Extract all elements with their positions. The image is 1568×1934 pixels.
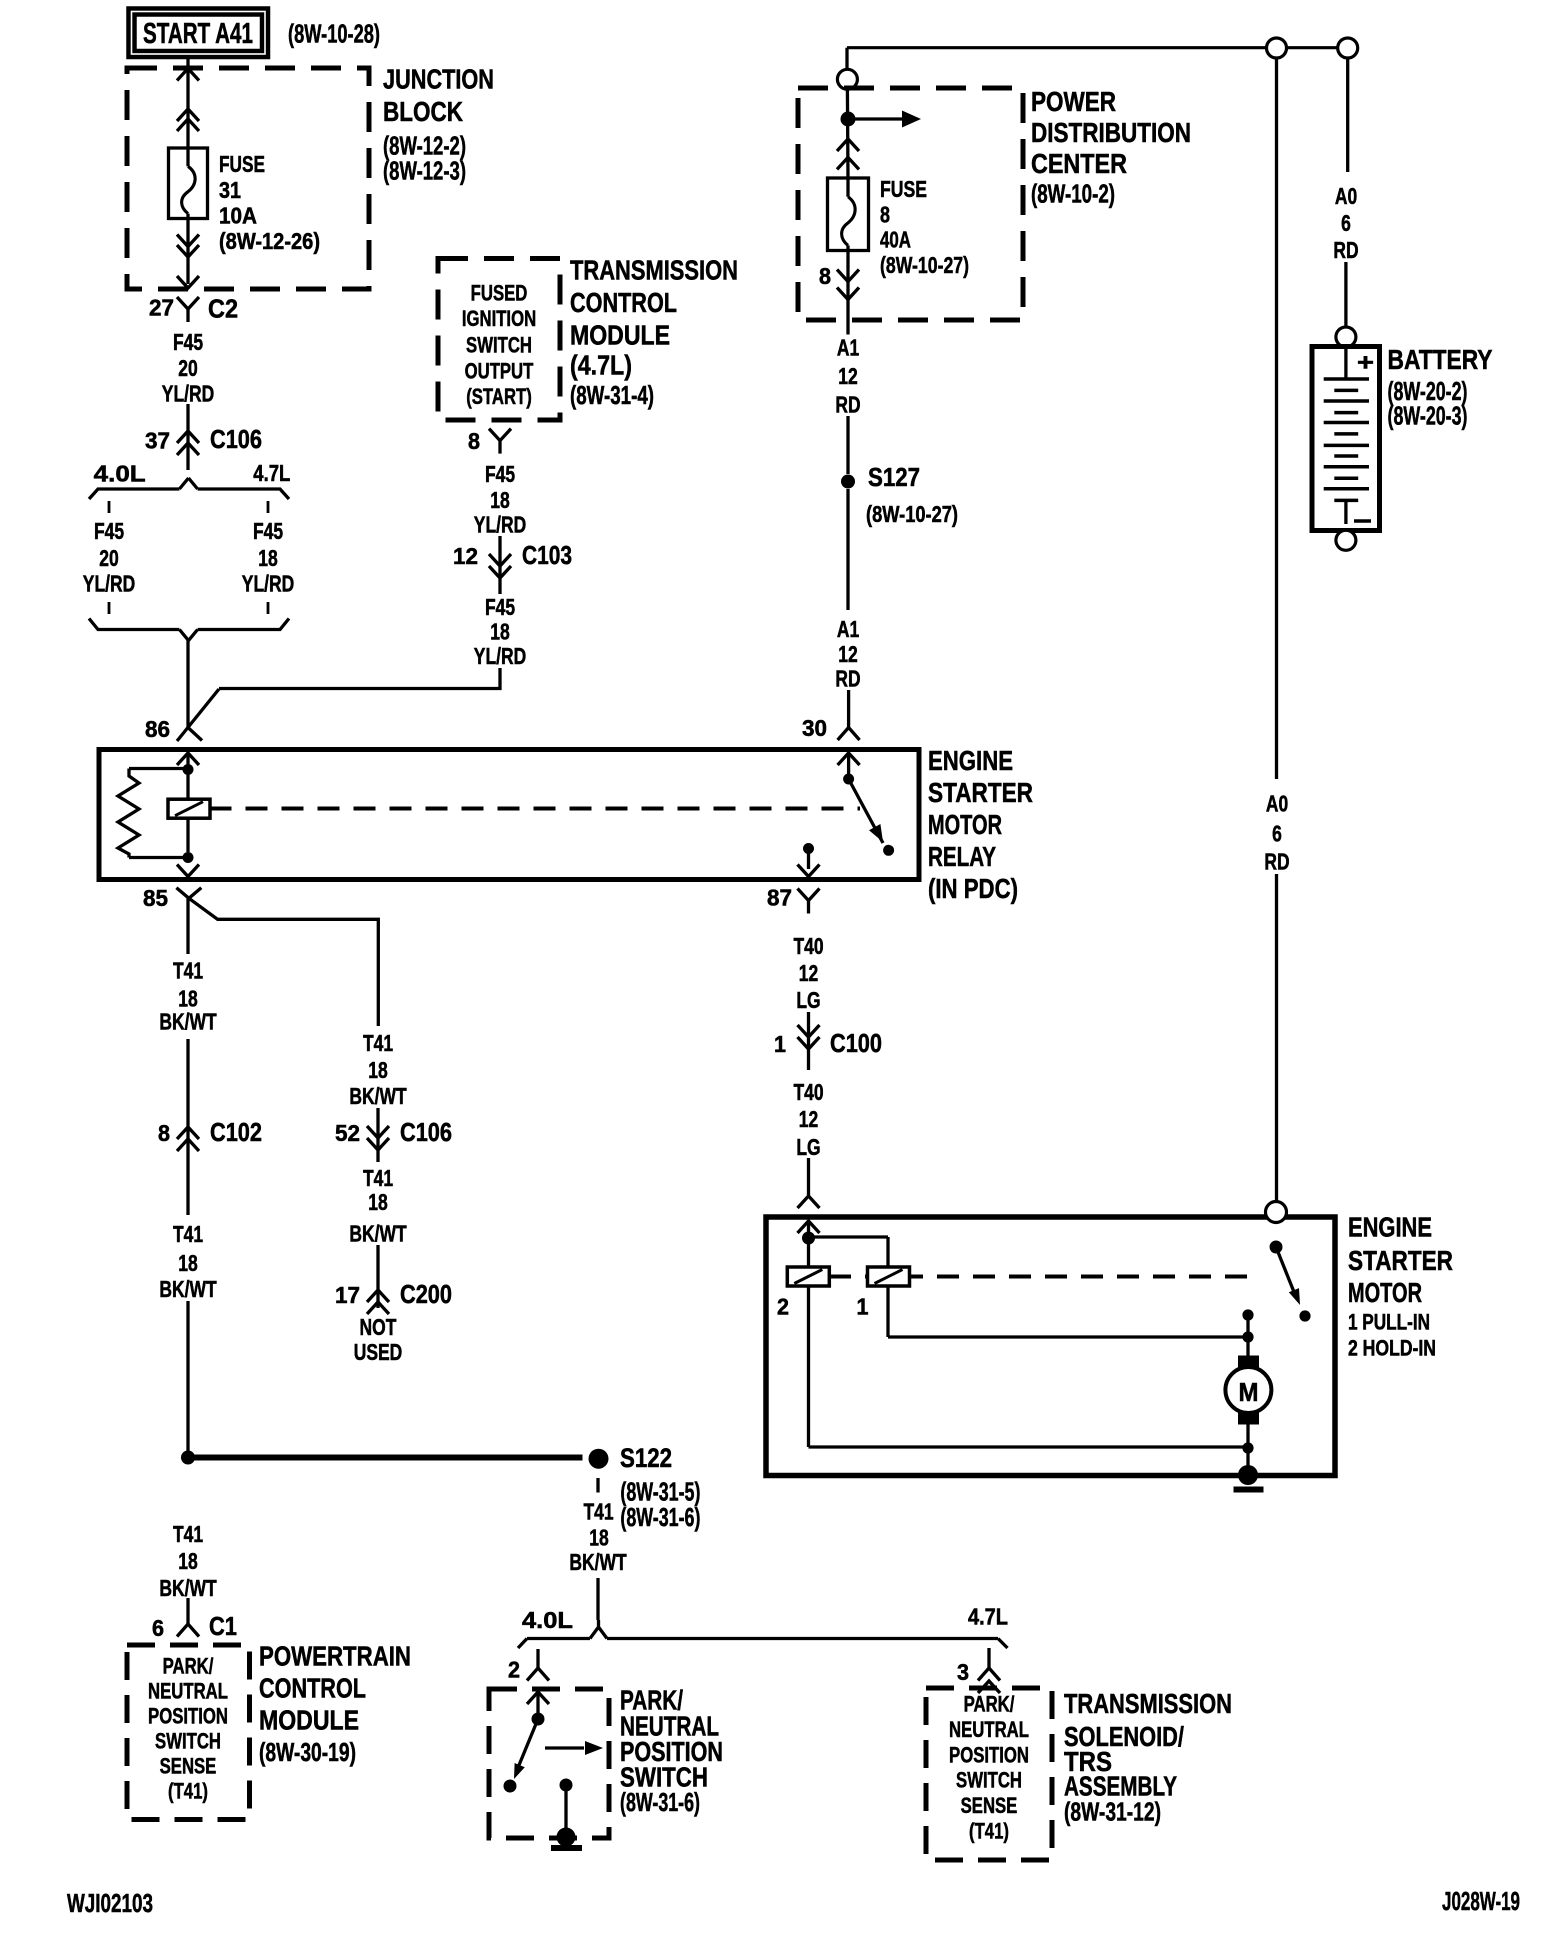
svg-text:J028W-19: J028W-19 <box>1442 1886 1520 1916</box>
svg-text:6: 6 <box>152 1615 164 1641</box>
svg-text:DISTRIBUTION: DISTRIBUTION <box>1031 117 1191 148</box>
svg-text:MODULE: MODULE <box>259 1705 359 1736</box>
svg-text:86: 86 <box>145 716 170 742</box>
svg-text:8: 8 <box>468 428 480 454</box>
svg-text:BK/WT: BK/WT <box>159 1276 216 1302</box>
svg-text:(IN PDC): (IN PDC) <box>928 873 1018 904</box>
svg-text:BK/WT: BK/WT <box>159 1575 216 1601</box>
svg-text:6: 6 <box>1341 210 1351 236</box>
svg-text:CONTROL: CONTROL <box>570 287 677 318</box>
svg-text:MODULE: MODULE <box>570 320 670 351</box>
svg-text:BK/WT: BK/WT <box>159 1009 216 1035</box>
svg-text:ENGINE: ENGINE <box>928 745 1013 776</box>
svg-text:(8W-10-27): (8W-10-27) <box>880 252 969 278</box>
svg-text:18: 18 <box>258 545 278 571</box>
svg-text:SWITCH: SWITCH <box>466 332 532 357</box>
svg-text:12: 12 <box>838 641 858 667</box>
svg-text:2: 2 <box>777 1294 789 1320</box>
svg-text:17: 17 <box>335 1282 360 1308</box>
svg-text:2: 2 <box>508 1657 520 1683</box>
svg-text:POWERTRAIN: POWERTRAIN <box>259 1641 411 1672</box>
svg-text:FUSED: FUSED <box>471 281 528 306</box>
svg-text:(START): (START) <box>466 384 532 409</box>
svg-text:12: 12 <box>453 543 478 569</box>
svg-text:8: 8 <box>819 263 831 289</box>
svg-text:TRANSMISSION: TRANSMISSION <box>1064 1688 1232 1719</box>
svg-text:4.0L: 4.0L <box>94 461 146 487</box>
svg-text:(8W-10-27): (8W-10-27) <box>866 501 958 527</box>
svg-text:SENSE: SENSE <box>160 1754 217 1779</box>
svg-text:8: 8 <box>158 1120 170 1146</box>
svg-text:6: 6 <box>1272 821 1282 847</box>
svg-text:F45: F45 <box>485 594 515 620</box>
svg-text:MOTOR: MOTOR <box>928 809 1002 840</box>
svg-text:40A: 40A <box>880 226 911 252</box>
svg-text:NOT: NOT <box>360 1314 397 1340</box>
svg-text:A1: A1 <box>837 335 859 361</box>
svg-text:2 HOLD-IN: 2 HOLD-IN <box>1348 1336 1436 1361</box>
svg-text:31: 31 <box>219 177 241 203</box>
svg-text:4.7L: 4.7L <box>968 1604 1008 1630</box>
svg-text:20: 20 <box>99 545 119 571</box>
svg-text:YL/RD: YL/RD <box>474 643 526 669</box>
svg-text:LG: LG <box>796 1134 820 1160</box>
svg-text:(8W-10-2): (8W-10-2) <box>1031 179 1115 209</box>
svg-text:87: 87 <box>767 885 792 911</box>
svg-text:T41: T41 <box>363 1030 393 1056</box>
svg-text:A0: A0 <box>1335 183 1357 209</box>
svg-text:8: 8 <box>880 202 890 228</box>
svg-text:BK/WT: BK/WT <box>569 1549 626 1575</box>
svg-text:IGNITION: IGNITION <box>462 306 536 331</box>
svg-text:A1: A1 <box>837 616 859 642</box>
svg-text:(8W-10-28): (8W-10-28) <box>288 19 380 49</box>
svg-text:JUNCTION: JUNCTION <box>383 64 494 95</box>
svg-text:T41: T41 <box>173 1221 203 1247</box>
svg-text:S127: S127 <box>868 462 920 492</box>
svg-text:RD: RD <box>1333 237 1358 263</box>
svg-text:PARK/: PARK/ <box>964 1692 1015 1717</box>
svg-text:POSITION: POSITION <box>148 1704 228 1729</box>
svg-text:(8W-31-12): (8W-31-12) <box>1064 1797 1161 1827</box>
svg-text:WJI02103: WJI02103 <box>67 1888 153 1918</box>
svg-text:SWITCH: SWITCH <box>956 1768 1022 1793</box>
svg-text:85: 85 <box>143 885 168 911</box>
svg-text:27: 27 <box>149 295 174 321</box>
svg-text:C2: C2 <box>208 294 238 324</box>
svg-text:C200: C200 <box>400 1279 452 1309</box>
svg-text:A0: A0 <box>1266 791 1288 817</box>
svg-text:T41: T41 <box>173 958 203 984</box>
svg-text:C103: C103 <box>522 540 572 570</box>
svg-text:18: 18 <box>368 1057 388 1083</box>
svg-text:YL/RD: YL/RD <box>242 571 294 597</box>
svg-text:(T41): (T41) <box>168 1779 208 1804</box>
svg-text:F45: F45 <box>94 518 124 544</box>
svg-text:NEUTRAL: NEUTRAL <box>949 1717 1029 1742</box>
svg-text:12: 12 <box>799 960 819 986</box>
svg-text:(8W-20-3): (8W-20-3) <box>1388 400 1468 430</box>
svg-text:FUSE: FUSE <box>219 151 265 177</box>
svg-text:BK/WT: BK/WT <box>349 1083 406 1109</box>
svg-text:YL/RD: YL/RD <box>474 512 526 538</box>
svg-text:20: 20 <box>178 355 198 381</box>
svg-text:(4.7L): (4.7L) <box>570 349 632 380</box>
svg-text:10A: 10A <box>219 203 257 229</box>
svg-text:RD: RD <box>835 392 860 418</box>
svg-text:MOTOR: MOTOR <box>1348 1277 1422 1308</box>
svg-text:+: + <box>1357 350 1374 377</box>
svg-text:1: 1 <box>857 1294 869 1320</box>
svg-text:3: 3 <box>957 1659 969 1685</box>
svg-text:NEUTRAL: NEUTRAL <box>148 1679 228 1704</box>
svg-text:PARK/: PARK/ <box>163 1654 214 1679</box>
svg-text:18: 18 <box>178 1548 198 1574</box>
svg-text:(8W-12-3): (8W-12-3) <box>383 156 466 186</box>
svg-text:F45: F45 <box>485 461 515 487</box>
svg-text:18: 18 <box>490 619 510 645</box>
svg-text:CENTER: CENTER <box>1031 148 1127 179</box>
svg-text:TRANSMISSION: TRANSMISSION <box>570 255 738 286</box>
svg-text:STARTER: STARTER <box>1348 1245 1453 1276</box>
svg-text:YL/RD: YL/RD <box>162 381 214 407</box>
svg-text:BK/WT: BK/WT <box>349 1221 406 1247</box>
svg-text:M: M <box>1239 1377 1259 1407</box>
svg-text:C102: C102 <box>210 1117 262 1147</box>
svg-text:12: 12 <box>838 363 858 389</box>
svg-text:ENGINE: ENGINE <box>1348 1212 1432 1243</box>
svg-text:(8W-12-26): (8W-12-26) <box>219 228 320 254</box>
svg-text:12: 12 <box>799 1106 819 1132</box>
svg-text:POSITION: POSITION <box>949 1742 1029 1767</box>
svg-text:18: 18 <box>368 1189 388 1215</box>
svg-text:USED: USED <box>354 1339 403 1365</box>
svg-text:1 PULL-IN: 1 PULL-IN <box>1348 1310 1430 1335</box>
svg-text:(T41): (T41) <box>969 1819 1009 1844</box>
svg-text:30: 30 <box>802 715 827 741</box>
svg-text:START A41: START A41 <box>143 18 253 50</box>
svg-text:T41: T41 <box>583 1499 613 1525</box>
svg-text:OUTPUT: OUTPUT <box>465 358 534 383</box>
svg-text:C1: C1 <box>209 1611 237 1641</box>
svg-text:4.7L: 4.7L <box>253 460 290 486</box>
svg-text:RD: RD <box>835 666 860 692</box>
svg-text:1: 1 <box>774 1031 786 1057</box>
svg-text:T40: T40 <box>793 1079 823 1105</box>
svg-text:C106: C106 <box>210 424 262 454</box>
svg-text:YL/RD: YL/RD <box>83 571 135 597</box>
svg-text:C106: C106 <box>400 1117 452 1147</box>
svg-text:SENSE: SENSE <box>961 1793 1018 1818</box>
svg-text:T40: T40 <box>793 933 823 959</box>
svg-text:STARTER: STARTER <box>928 777 1033 808</box>
svg-text:(8W-31-6): (8W-31-6) <box>620 1502 700 1532</box>
svg-text:37: 37 <box>145 428 170 454</box>
svg-text:18: 18 <box>589 1525 609 1551</box>
svg-text:F45: F45 <box>253 518 283 544</box>
svg-text:LG: LG <box>796 987 820 1013</box>
svg-text:T41: T41 <box>173 1521 203 1547</box>
svg-text:BLOCK: BLOCK <box>383 96 463 127</box>
svg-text:POWER: POWER <box>1031 86 1116 117</box>
svg-text:CONTROL: CONTROL <box>259 1673 366 1704</box>
svg-text:S122: S122 <box>620 1443 672 1473</box>
svg-text:18: 18 <box>490 487 510 513</box>
svg-text:C100: C100 <box>830 1028 882 1058</box>
svg-text:(8W-31-4): (8W-31-4) <box>570 380 654 410</box>
svg-text:FUSE: FUSE <box>880 176 927 202</box>
svg-text:F45: F45 <box>173 329 203 355</box>
svg-text:RELAY: RELAY <box>928 841 996 872</box>
svg-text:BATTERY: BATTERY <box>1388 344 1493 375</box>
svg-text:SWITCH: SWITCH <box>155 1729 221 1754</box>
svg-text:T41: T41 <box>363 1165 393 1191</box>
svg-text:(8W-31-6): (8W-31-6) <box>620 1787 700 1817</box>
svg-text:(8W-30-19): (8W-30-19) <box>259 1737 356 1767</box>
svg-text:RD: RD <box>1264 849 1289 875</box>
svg-text:4.0L: 4.0L <box>522 1607 573 1633</box>
svg-text:52: 52 <box>335 1120 360 1146</box>
svg-text:18: 18 <box>178 1250 198 1276</box>
